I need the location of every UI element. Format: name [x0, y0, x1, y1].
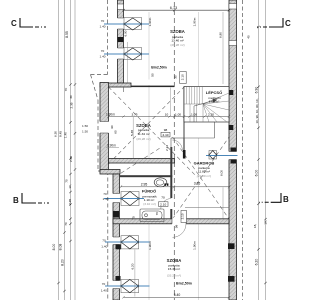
- svg-text:1.90m: 1.90m: [106, 113, 115, 117]
- svg-text:60: 60: [114, 130, 118, 134]
- black column right wall b1: [228, 243, 235, 249]
- eaves dashed line left bottom: [107, 171, 109, 300]
- svg-text:70: 70: [161, 196, 165, 200]
- radiator top1: [124, 18, 142, 31]
- svg-text:10,: 10,: [68, 184, 72, 188]
- column at wall end: [183, 150, 186, 159]
- niche in right wall top: [229, 41, 237, 46]
- svg-text:1.50: 1.50: [82, 124, 88, 128]
- wall left bottom vertical: [113, 174, 120, 300]
- svg-text:6.90: 6.90: [124, 30, 128, 36]
- svg-text:8.55: 8.55: [65, 31, 69, 38]
- section marker C right: [257, 18, 291, 28]
- svg-text:3.75: 3.75: [131, 112, 137, 116]
- svg-text:70: 70: [65, 179, 69, 183]
- left dimension chain lines: [59, 0, 76, 300]
- window gap left wall y53.5: [117, 48, 125, 59]
- wall top opening threshold lines: [131, 86, 174, 88]
- svg-text:6,13: 6,13: [170, 6, 177, 10]
- svg-text:FÜRDŐ: FÜRDŐ: [142, 189, 156, 194]
- understairs closet outline: [171, 122, 215, 159]
- svg-text:1.00: 1.00: [191, 112, 197, 116]
- svg-text:C: C: [285, 19, 291, 28]
- room label szoba middle: [136, 123, 151, 141]
- niche in right wall very top: [229, 4, 237, 10]
- door arc bottom room: [173, 224, 187, 238]
- dashed X over gardrob: [173, 137, 230, 219]
- svg-text:11.34 m²: 11.34 m²: [138, 132, 150, 136]
- opening left middle wall: [99, 122, 110, 134]
- svg-text:1.90m: 1.90m: [192, 17, 196, 26]
- dimension line middle room: [107, 115, 230, 117]
- stair winder lines: [203, 93, 229, 122]
- tick marks right chain: [257, 26, 266, 284]
- dimension line fürdő gardrob: [120, 185, 231, 188]
- wall left middle vertical: [100, 83, 109, 173]
- bottom door 2.10 box: [181, 211, 187, 223]
- svg-text:1.50: 1.50: [82, 129, 88, 133]
- window label 70/1.40 top1: [99, 19, 105, 29]
- stair treads lower vertical: [190, 104, 203, 122]
- svg-text:1,40: 1,40: [101, 288, 107, 292]
- svg-text:2.35: 2.35: [70, 102, 74, 108]
- svg-text:8.00: 8.00: [52, 244, 56, 251]
- svg-text:2.10: 2.10: [160, 203, 166, 207]
- svg-text:B: B: [13, 196, 19, 205]
- svg-text:70: 70: [102, 238, 106, 242]
- svg-text:30: 30: [69, 95, 73, 99]
- svg-text:70: 70: [103, 192, 107, 196]
- roof ridge dashed line: [173, 2, 175, 300]
- black column right wall s2: [229, 125, 234, 130]
- wall left step horizontal: [100, 170, 120, 175]
- black column left wall top: [118, 37, 124, 42]
- stairs door 2.10 box: [180, 72, 187, 84]
- middle room right wall: [183, 87, 185, 159]
- svg-text:C: C: [11, 19, 17, 28]
- svg-text:Bm2,50m: Bm2,50m: [176, 282, 192, 286]
- svg-text:98: 98: [175, 225, 179, 229]
- svg-text:98: 98: [164, 128, 168, 132]
- svg-text:75: 75: [132, 216, 136, 220]
- svg-text:6.40: 6.40: [174, 293, 181, 297]
- svg-text:1.90m: 1.90m: [148, 17, 152, 26]
- svg-text:40: 40: [247, 35, 251, 39]
- svg-text:2.95: 2.95: [141, 183, 148, 187]
- knee-wall 1.90m line x152: [148, 12, 150, 300]
- radiator tip ticks: [121, 23, 217, 288]
- room label fürdő: [142, 189, 157, 207]
- svg-text:70: 70: [64, 88, 68, 92]
- opening label 1.50 1.50: [82, 124, 88, 133]
- svg-text:2.10: 2.10: [181, 74, 185, 80]
- svg-text:18,: 18,: [253, 224, 257, 228]
- svg-text:1.40: 1.40: [99, 25, 105, 29]
- svg-text:6.90: 6.90: [218, 32, 222, 38]
- eaves dashed line left top: [107, 0, 109, 75]
- svg-text:6.00: 6.00: [255, 170, 259, 177]
- window gap left bottom wall y198.5: [112, 194, 121, 203]
- window label fürdő: [102, 192, 108, 201]
- wall left top vertical: [118, 0, 124, 83]
- svg-text:1.40: 1.40: [99, 55, 105, 59]
- svg-text:18,: 18,: [264, 220, 268, 224]
- svg-text:(33.28 m²): (33.28 m²): [167, 273, 181, 277]
- svg-text:B: B: [283, 195, 289, 204]
- window gap left wall y23.5: [117, 18, 125, 29]
- svg-text:90: 90: [110, 125, 114, 129]
- svg-text:8.08: 8.08: [59, 244, 63, 251]
- fürdő gardrob separator wall: [170, 147, 172, 219]
- svg-text:1.86 m²: 1.86 m²: [209, 99, 220, 103]
- svg-text:70: 70: [102, 282, 106, 286]
- window gap right wall y155.5: [228, 152, 238, 160]
- dimension line 6.40 bottom: [122, 296, 230, 298]
- window gap left bottom wall y243: [112, 237, 121, 245]
- dimension line 6.13 top: [122, 9, 230, 11]
- niche in left wall top: [118, 4, 124, 10]
- room label gardrob: [194, 161, 215, 178]
- fürdő door 2.10 box: [159, 202, 169, 207]
- section marker B right: [259, 193, 289, 204]
- svg-text:LÉPCSŐ: LÉPCSŐ: [206, 90, 222, 95]
- svg-text:6.20: 6.20: [131, 263, 135, 269]
- black column left wall low1: [116, 244, 122, 249]
- window glazing line top1: [104, 23, 149, 25]
- svg-text:50: 50: [151, 73, 155, 77]
- black column left wall mid: [113, 211, 119, 218]
- door arc fürdő: [161, 199, 172, 210]
- svg-text:2.35: 2.35: [69, 156, 73, 162]
- fürdő top thin wall: [120, 175, 173, 177]
- right dimension chain lines: [259, 0, 266, 300]
- window label bottom2: [101, 282, 107, 292]
- svg-text:70: 70: [155, 212, 159, 216]
- window label 70/1.40 top2: [99, 49, 105, 59]
- gardrob door 2.10 box: [161, 132, 170, 137]
- eaves dashed elbow 2: [98, 170, 108, 172]
- svg-text:2.10: 2.10: [162, 133, 168, 137]
- staircase box: [184, 87, 229, 123]
- svg-text:70: 70: [101, 49, 105, 53]
- radiator top2: [124, 48, 142, 61]
- knee-wall 1.90m line x196: [197, 12, 199, 300]
- black column right wall b2: [228, 276, 235, 282]
- svg-text:1.90m: 1.90m: [192, 241, 196, 250]
- svg-text:1.43: 1.43: [102, 197, 108, 201]
- wall middle thick horizontal: [109, 159, 175, 164]
- svg-text:8.20: 8.20: [61, 259, 65, 266]
- black column right wall w1: [231, 148, 237, 152]
- stair treads upper vertical: [184, 87, 202, 105]
- window glazing line gardrob: [206, 155, 238, 157]
- svg-text:SZOBA: SZOBA: [167, 258, 182, 263]
- wall bottom thick horizontal: [113, 219, 229, 224]
- svg-text:1.90m: 1.90m: [148, 241, 152, 250]
- svg-text:1,40: 1,40: [101, 244, 107, 248]
- wall top step horizontal: [100, 83, 131, 87]
- room label szoba bottom: [167, 258, 182, 278]
- svg-text:5.48: 5.48: [130, 130, 134, 136]
- radiator gardrob: [209, 151, 217, 160]
- svg-text:15.36 m²: 15.36 m²: [168, 267, 180, 271]
- svg-text:2.10: 2.10: [181, 213, 185, 219]
- svg-text:10, 90, 10, 90, 10,: 10, 90, 10, 90, 10,: [255, 98, 259, 123]
- svg-text:2.13: 2.13: [165, 145, 169, 151]
- washbasin: [154, 178, 168, 187]
- stair walk line with arrow: [194, 101, 214, 123]
- svg-text:30: 30: [173, 75, 177, 79]
- eaves dashed line right: [242, 0, 244, 300]
- eaves dashed elbow: [91, 74, 108, 76]
- svg-text:3.35: 3.35: [194, 182, 201, 186]
- svg-text:GARDROB: GARDROB: [194, 161, 215, 166]
- svg-text:(29,28 m²): (29,28 m²): [136, 137, 150, 141]
- svg-text:70: 70: [101, 19, 105, 23]
- tick marks left chain: [57, 83, 76, 292]
- svg-text:70: 70: [64, 222, 68, 226]
- window glazing line bottom2: [105, 285, 150, 287]
- svg-text:6.20: 6.20: [255, 259, 259, 266]
- window label bottom1: [101, 238, 107, 248]
- window glazing line bottom1: [105, 241, 150, 243]
- svg-text:(29,28 m²): (29,28 m²): [170, 43, 184, 47]
- section marker B left: [13, 193, 49, 205]
- svg-text:2.20: 2.20: [208, 112, 214, 116]
- section marker C left: [11, 18, 46, 28]
- window glazing line fürdő: [104, 198, 144, 200]
- svg-text:Bm2,50m: Bm2,50m: [151, 65, 167, 69]
- svg-text:1.90m: 1.90m: [107, 144, 116, 148]
- room label lépcső: [206, 90, 222, 103]
- door gap separator wall: [170, 198, 173, 209]
- svg-text:(3.10 m²): (3.10 m²): [143, 202, 156, 206]
- svg-text:13.40 m²: 13.40 m²: [171, 39, 183, 43]
- svg-text:8.45: 8.45: [59, 131, 63, 137]
- black column right wall w2: [231, 160, 237, 164]
- svg-text:1.00: 1.00: [175, 112, 181, 116]
- dashed X over middle room: [109, 87, 198, 177]
- wall right vertical: [229, 0, 237, 300]
- door gap bottom wall: [172, 218, 186, 225]
- black column right wall s1: [229, 90, 234, 95]
- black column left wall low2: [116, 276, 121, 281]
- svg-text:(22.20 m²): (22.20 m²): [197, 174, 211, 178]
- room label szoba top: [170, 29, 185, 47]
- eaves dashed line left middle: [91, 75, 99, 101]
- door arc gardrob top: [172, 140, 182, 150]
- svg-text:1.40: 1.40: [64, 132, 68, 138]
- svg-text:6.90: 6.90: [255, 87, 259, 94]
- svg-text:6.30: 6.30: [54, 131, 58, 137]
- radiator fürdő: [121, 192, 139, 206]
- svg-text:10: 10: [165, 112, 169, 116]
- bathtub: [140, 209, 164, 222]
- radiator bottom2: [121, 280, 139, 293]
- svg-text:2.28: 2.28: [68, 199, 72, 205]
- window gap left bottom wall y286.5: [112, 281, 121, 289]
- svg-text:6.00: 6.00: [220, 170, 224, 176]
- radiator bottom1: [121, 236, 139, 249]
- window glazing line top2: [104, 53, 149, 55]
- svg-text:SZOBA: SZOBA: [170, 29, 185, 34]
